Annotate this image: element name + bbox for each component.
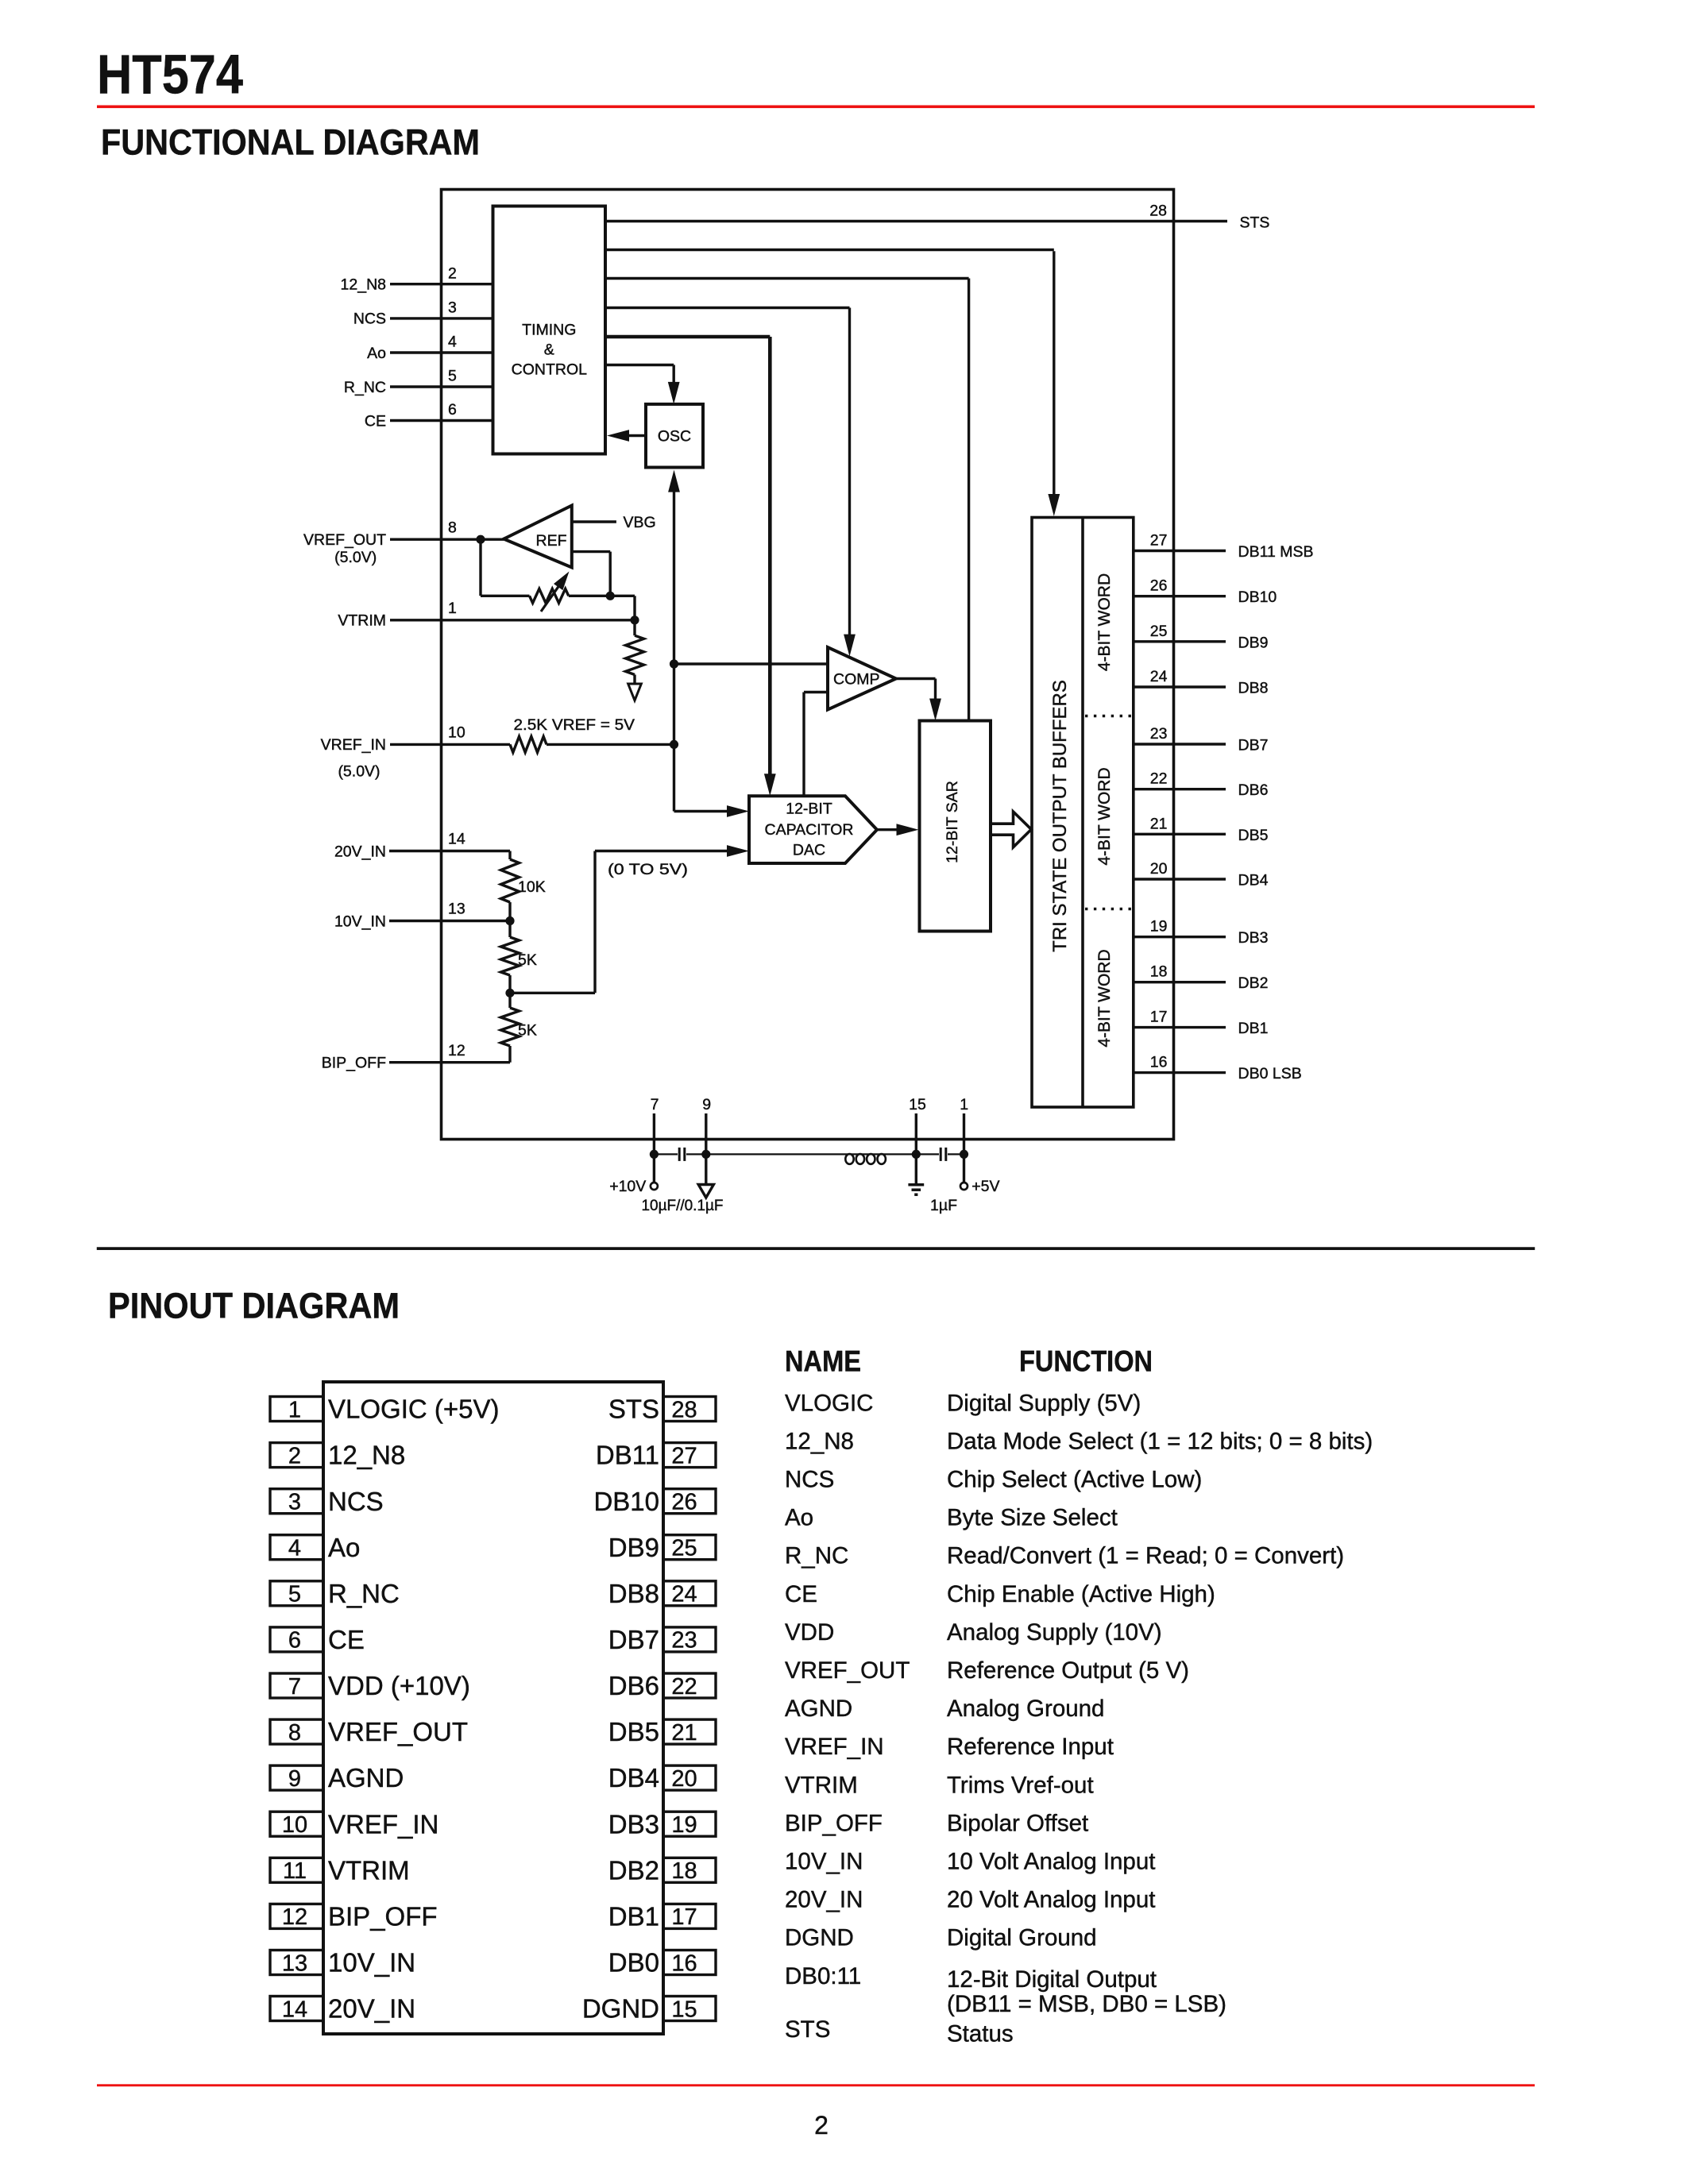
svg-text:15: 15 (909, 1096, 926, 1113)
trimmer resistor R_TRIM (530, 588, 569, 603)
svg-text:NCS: NCS (328, 1487, 384, 1516)
wire DB10 (pin 26) (1134, 595, 1226, 597)
svg-text:DAC: DAC (793, 841, 825, 859)
bus arrow SAR to TRI STATE OUTPUT BUFFERS (991, 812, 1031, 847)
arrowhead into COMP top (844, 635, 856, 657)
svg-text:2: 2 (814, 2111, 829, 2140)
svg-text:VLOGIC (+5V): VLOGIC (+5V) (328, 1395, 499, 1424)
svg-text:DB4: DB4 (608, 1763, 659, 1792)
svg-text:DB5: DB5 (608, 1717, 659, 1746)
svg-text:7: 7 (288, 1674, 301, 1700)
svg-text:12-BIT: 12-BIT (786, 801, 832, 818)
wire DB1 (pin 17) (1134, 1026, 1226, 1028)
svg-text:STS: STS (1240, 214, 1270, 231)
wire supply rail segment 4 (948, 1153, 964, 1155)
pin 9 stub (705, 1113, 707, 1154)
arrowhead into TIMING & CONTROL right edge (607, 430, 629, 442)
wire supply rail segment 2 (686, 1153, 844, 1155)
outer boundary box of functional diagram (442, 190, 1174, 1140)
resistor R1 below VTRIM node (633, 620, 635, 635)
svg-text:27: 27 (671, 1443, 697, 1468)
svg-text:TIMING: TIMING (522, 322, 576, 339)
chip pin box 5 (270, 1581, 323, 1606)
svg-text:3: 3 (448, 299, 457, 317)
terminal +5V circle (960, 1183, 968, 1190)
svg-text:24: 24 (1150, 668, 1168, 685)
svg-text:VTRIM: VTRIM (785, 1772, 858, 1798)
svg-text:DB1: DB1 (1238, 1020, 1269, 1037)
svg-text:4-BIT WORD: 4-BIT WORD (1095, 573, 1114, 671)
chip pin box 18 (663, 1858, 716, 1882)
svg-text:PINOUT DIAGRAM: PINOUT DIAGRAM (108, 1286, 400, 1326)
chip pin box 15 (663, 1997, 716, 2021)
junction COMP input branch (670, 659, 678, 668)
svg-text:DB8: DB8 (608, 1579, 659, 1608)
svg-text:BIP_OFF: BIP_OFF (785, 1810, 883, 1836)
terminal +10V circle (651, 1183, 658, 1190)
svg-text:12_N8: 12_N8 (341, 276, 386, 294)
svg-text:Chip Select (Active Low): Chip Select (Active Low) (947, 1467, 1202, 1493)
svg-text:Trims Vref-out: Trims Vref-out (947, 1772, 1094, 1798)
svg-text:DB9: DB9 (1238, 634, 1269, 651)
wire pin15 to digital ground (915, 1154, 917, 1184)
svg-text:R_NC: R_NC (785, 1543, 848, 1569)
wire feedback to VTRIM node (610, 595, 635, 597)
wire 10V_IN (pin 13) (389, 920, 510, 922)
svg-text:5K: 5K (518, 1022, 537, 1040)
chip pin box 9 (270, 1765, 323, 1790)
wire 20V_IN (pin 14) (389, 850, 510, 852)
svg-text:12-BIT SAR: 12-BIT SAR (944, 781, 961, 863)
svg-text:Reference Input: Reference Input (947, 1734, 1114, 1760)
svg-text:2: 2 (288, 1443, 301, 1468)
svg-text:Ao: Ao (785, 1505, 813, 1531)
svg-text:2: 2 (448, 264, 457, 282)
wire VREF node to DAC input 1 (674, 810, 732, 812)
svg-text:11: 11 (283, 1858, 307, 1884)
svg-text:CONTROL: CONTROL (512, 361, 587, 379)
wire STS (pin 28) from TIMING & CONTROL (605, 220, 1227, 222)
block 12-BIT SAR (920, 721, 991, 932)
svg-text:&: & (544, 341, 554, 359)
chip pin box 4 (270, 1535, 323, 1560)
wire TIMING & CONTROL to OSC (605, 364, 674, 366)
svg-text:STS: STS (608, 1395, 659, 1424)
junction 10V_IN node (505, 916, 514, 925)
svg-text:CE: CE (785, 1581, 817, 1607)
chip pin box 20 (663, 1765, 716, 1790)
svg-text:Reference Output (5 V): Reference Output (5 V) (947, 1657, 1189, 1684)
chip pin box 19 (663, 1812, 716, 1836)
svg-text:20: 20 (1150, 860, 1168, 878)
wire NCS (pin 3) to TIMING & CONTROL (390, 317, 493, 319)
svg-text:12: 12 (282, 1904, 307, 1930)
chip pin box 27 (663, 1443, 716, 1468)
chip pin box 21 (663, 1719, 716, 1744)
junction rail pin9 (701, 1150, 710, 1159)
svg-text:VDD: VDD (785, 1619, 834, 1646)
wire feedback from VREF_OUT node down (479, 539, 481, 596)
black section divider rule (97, 1248, 1535, 1250)
arrowhead into TRI STATE OUTPUT BUFFERS (1048, 494, 1060, 516)
svg-text:AGND: AGND (785, 1696, 852, 1722)
svg-text:12-Bit Digital Output: 12-Bit Digital Output (947, 1966, 1157, 1993)
svg-text:18: 18 (671, 1858, 697, 1884)
wire BIP_OFF (pin 12) (389, 1061, 510, 1063)
svg-text:1: 1 (960, 1096, 968, 1113)
chip pin box 1 (270, 1397, 323, 1422)
pin 7 stub (653, 1113, 655, 1154)
red header rule (97, 106, 1535, 109)
resistor R2 2.5K (510, 736, 547, 752)
ground digital (bar symbol) (908, 1183, 924, 1187)
wire VREF node vertical (673, 488, 675, 812)
svg-text:10V_IN: 10V_IN (328, 1948, 415, 1978)
svg-text:NCS: NCS (785, 1467, 834, 1493)
wire trimmer to REF output (569, 595, 610, 597)
svg-text:12: 12 (448, 1042, 465, 1059)
junction rail pin1 (960, 1150, 968, 1159)
wire VREF node to COMP input 1 (674, 662, 829, 665)
svg-text:6: 6 (288, 1628, 301, 1653)
divider dotted between 4-bit words upper (1085, 715, 1134, 717)
svg-text:DB5: DB5 (1238, 827, 1269, 844)
svg-text:DB3: DB3 (608, 1809, 659, 1839)
svg-text:VLOGIC: VLOGIC (785, 1390, 873, 1416)
svg-text:10 Volt Analog Input: 10 Volt Analog Input (947, 1849, 1155, 1875)
junction VREF_OUT feedback (476, 535, 485, 544)
svg-text:Data Mode Select (1 = 12 bits;: Data Mode Select (1 = 12 bits; 0 = 8 bit… (947, 1428, 1373, 1454)
svg-text:Byte Size Select: Byte Size Select (947, 1505, 1118, 1531)
svg-text:4-BIT WORD: 4-BIT WORD (1095, 767, 1114, 865)
svg-text:1µF: 1µF (930, 1197, 957, 1214)
wire DB0 (pin 16) (1134, 1071, 1226, 1074)
junction VREF_IN node (670, 740, 678, 749)
svg-text:(5.0V): (5.0V) (334, 549, 377, 566)
svg-text:19: 19 (1150, 918, 1168, 936)
chip pin box 28 (663, 1397, 716, 1422)
junction VTRIM (630, 615, 639, 624)
resistor R5 5K (508, 993, 511, 1008)
wire VREF_IN (pin 10) left segment (390, 743, 510, 746)
svg-text:DB1: DB1 (608, 1901, 659, 1931)
svg-text:20V_IN: 20V_IN (328, 1994, 415, 2024)
svg-text:5K: 5K (518, 951, 537, 969)
svg-text:4: 4 (448, 334, 457, 351)
svg-text:22: 22 (671, 1674, 697, 1700)
svg-text:(DB11 = MSB, DB0 = LSB): (DB11 = MSB, DB0 = LSB) (947, 1991, 1226, 2017)
svg-text:10V_IN: 10V_IN (334, 913, 386, 930)
svg-text:VREF_IN: VREF_IN (785, 1734, 884, 1760)
svg-text:13: 13 (448, 901, 465, 918)
svg-text:26: 26 (671, 1489, 697, 1515)
junction divider node (505, 989, 514, 997)
svg-text:Status: Status (947, 2021, 1014, 2047)
svg-text:20 Volt Analog Input: 20 Volt Analog Input (947, 1887, 1155, 1913)
svg-text:FUNCTION: FUNCTION (1019, 1345, 1153, 1377)
svg-text:DB10: DB10 (593, 1487, 659, 1516)
wire VTRIM (pin 1) (390, 619, 635, 621)
svg-text:+10V: +10V (609, 1178, 646, 1195)
block OSC U2 (646, 404, 703, 468)
svg-text:R_NC: R_NC (328, 1579, 400, 1608)
arrowhead into OSC bottom (668, 470, 680, 492)
wire TIMING & CONTROL to TRI STATE OUTPUT BUFFERS (605, 249, 1054, 251)
svg-text:20V_IN: 20V_IN (785, 1887, 863, 1913)
pin 1 stub (VLOGIC) (963, 1113, 965, 1154)
chip pin box 16 (663, 1951, 716, 1975)
svg-text:DB6: DB6 (1238, 781, 1269, 799)
svg-text:21: 21 (1150, 815, 1168, 832)
svg-text:Analog Ground: Analog Ground (947, 1696, 1104, 1722)
svg-text:DB3: DB3 (1238, 929, 1269, 947)
junction trimmer-REF output (606, 592, 615, 600)
divider dotted between 4-bit words lower (1085, 908, 1134, 910)
wire DAC output to COMP input 2 (802, 693, 805, 797)
svg-text:DB6: DB6 (608, 1671, 659, 1700)
arrowhead into DAC input 1 (727, 805, 749, 817)
svg-text:Analog Supply (10V): Analog Supply (10V) (947, 1619, 1162, 1646)
svg-text:DB2: DB2 (1238, 974, 1269, 992)
chip pin box 3 (270, 1489, 323, 1514)
svg-text:DB7: DB7 (1238, 737, 1269, 754)
svg-text:10µF//0.1µF: 10µF//0.1µF (642, 1197, 724, 1214)
open arrow reference symbol below R1 (628, 684, 642, 700)
inductor L1 (845, 1154, 853, 1164)
chip pin box 12 (270, 1904, 323, 1928)
wire DB3 (pin 19) (1134, 936, 1226, 938)
svg-text:20: 20 (671, 1766, 697, 1792)
block TRI STATE OUTPUT BUFFERS (1032, 518, 1134, 1108)
svg-text:R_NC: R_NC (344, 379, 386, 396)
wire supply rail segment 1 (654, 1153, 678, 1155)
capacitor C1 10uF//0.1uF (678, 1148, 681, 1161)
svg-text:BIP_OFF: BIP_OFF (322, 1055, 386, 1072)
wire DB9 (pin 25) (1134, 640, 1226, 642)
wire TIMING & CONTROL to 12-BIT SAR (605, 277, 969, 280)
junction rail pin15 (912, 1150, 921, 1159)
chip pin box 2 (270, 1443, 323, 1468)
svg-text:(0 TO 5V): (0 TO 5V) (608, 861, 688, 878)
svg-text:10K: 10K (518, 878, 546, 896)
svg-text:OSC: OSC (658, 428, 691, 446)
svg-text:12_N8: 12_N8 (328, 1441, 405, 1470)
svg-text:6: 6 (448, 401, 457, 419)
wire DAC output to SAR input (877, 828, 900, 831)
chip pin box 17 (663, 1904, 716, 1928)
wire OSC output to TIMING & CONTROL (628, 434, 646, 437)
comparator COMP U4 (828, 647, 896, 710)
svg-text:DB0 LSB: DB0 LSB (1238, 1065, 1302, 1082)
svg-text:CE: CE (328, 1625, 365, 1654)
svg-text:16: 16 (1150, 1054, 1168, 1071)
resistor R3 10K (508, 851, 511, 860)
svg-text:VTRIM: VTRIM (328, 1855, 410, 1885)
svg-text:10: 10 (282, 1812, 307, 1838)
arrowhead into DAC input 2 (727, 845, 749, 857)
arrowhead into SAR top (929, 699, 941, 721)
svg-text:22: 22 (1150, 770, 1168, 788)
trimmer arrow (541, 584, 561, 612)
svg-text:Digital Ground: Digital Ground (947, 1925, 1097, 1951)
svg-text:HT574: HT574 (97, 44, 243, 106)
svg-text:Bipolar Offset: Bipolar Offset (947, 1810, 1088, 1836)
arrowhead into OSC top (668, 382, 680, 404)
svg-text:Digital Supply (5V): Digital Supply (5V) (947, 1390, 1141, 1416)
svg-text:17: 17 (671, 1904, 697, 1930)
svg-text:DB0: DB0 (608, 1948, 659, 1978)
chip pin box 23 (663, 1627, 716, 1652)
svg-text:27: 27 (1150, 532, 1168, 550)
net VBG stub (572, 520, 616, 523)
chip body HT574 (323, 1382, 663, 2034)
svg-text:(5.0V): (5.0V) (338, 763, 380, 781)
svg-text:FUNCTIONAL DIAGRAM: FUNCTIONAL DIAGRAM (101, 122, 480, 163)
svg-text:7: 7 (651, 1096, 659, 1113)
chip pin box 26 (663, 1489, 716, 1514)
wire DB5 (pin 21) (1134, 833, 1226, 835)
wire R_NC (pin 5) to TIMING & CONTROL (390, 385, 493, 388)
svg-text:REF: REF (536, 532, 567, 550)
svg-text:5: 5 (288, 1582, 301, 1607)
chip pin box 8 (270, 1719, 323, 1744)
svg-text:1: 1 (288, 1397, 301, 1422)
resistor R4 5K (508, 921, 511, 938)
wire DB8 (pin 24) (1134, 685, 1226, 688)
svg-text:NAME: NAME (785, 1345, 861, 1377)
arrowhead into DAC top (764, 774, 776, 796)
svg-text:1: 1 (448, 600, 457, 617)
svg-text:DB10: DB10 (1238, 588, 1277, 606)
svg-text:TRI STATE OUTPUT BUFFERS: TRI STATE OUTPUT BUFFERS (1049, 680, 1071, 952)
svg-text:COMP: COMP (833, 671, 880, 689)
wire pin1 to +5V terminal (963, 1154, 965, 1182)
wire Ao (pin 4) to TIMING & CONTROL (390, 351, 493, 353)
svg-text:DB11: DB11 (596, 1441, 659, 1470)
svg-text:AGND: AGND (328, 1763, 404, 1792)
svg-text:15: 15 (671, 1997, 697, 2022)
svg-text:10: 10 (448, 724, 465, 742)
svg-text:5: 5 (448, 368, 457, 385)
wire 12_N8 (pin 2) to TIMING & CONTROL (390, 283, 493, 285)
wire VREF_OUT (pin 8) to REF (390, 538, 504, 541)
block TIMING & CONTROL (493, 206, 606, 454)
svg-text:9: 9 (288, 1766, 301, 1792)
capacitor C2 1uF (940, 1148, 942, 1161)
wire pin9 to analog ground (705, 1154, 707, 1184)
wire 0-to-5V node to DAC input 2 (510, 992, 595, 994)
svg-text:DB4: DB4 (1238, 872, 1269, 889)
svg-text:25: 25 (1150, 623, 1168, 640)
chip pin box 7 (270, 1673, 323, 1698)
chip pin box 14 (270, 1997, 323, 2021)
svg-text:DB11 MSB: DB11 MSB (1238, 543, 1314, 561)
svg-text:Ao: Ao (328, 1533, 360, 1562)
wire DB2 (pin 18) (1134, 981, 1226, 983)
op-amp REF U3 (504, 506, 572, 568)
chip pin box 24 (663, 1581, 716, 1606)
svg-text:3: 3 (288, 1489, 301, 1515)
chip pin box 22 (663, 1673, 716, 1698)
svg-text:BIP_OFF: BIP_OFF (328, 1901, 438, 1931)
svg-text:CE: CE (365, 412, 386, 430)
svg-text:21: 21 (671, 1720, 697, 1746)
svg-text:28: 28 (1149, 202, 1167, 219)
chip pin box 25 (663, 1535, 716, 1560)
svg-text:14: 14 (282, 1997, 307, 2022)
chip pin box 11 (270, 1858, 323, 1882)
svg-text:DB8: DB8 (1238, 680, 1269, 697)
red footer rule (97, 2084, 1535, 2086)
svg-text:DB0:11: DB0:11 (785, 1963, 861, 1989)
svg-text:24: 24 (671, 1582, 697, 1607)
wire COMP output to 12-BIT SAR (896, 677, 936, 680)
chip pin box 6 (270, 1627, 323, 1652)
svg-text:VREF_OUT: VREF_OUT (785, 1657, 910, 1684)
svg-text:VREF_OUT: VREF_OUT (303, 531, 386, 549)
svg-text:18: 18 (1150, 963, 1168, 981)
svg-text:8: 8 (448, 519, 457, 536)
chip pin box 10 (270, 1812, 323, 1836)
wire TIMING & CONTROL to COMP (605, 307, 850, 309)
svg-text:13: 13 (282, 1951, 307, 1976)
wire CE (pin 6) to TIMING & CONTROL (390, 419, 493, 422)
pin 15 stub (915, 1113, 917, 1154)
svg-text:20V_IN: 20V_IN (334, 843, 386, 860)
svg-text:9: 9 (702, 1096, 711, 1113)
wire DB7 (pin 23) (1134, 743, 1226, 745)
wire pin7 to +10V terminal (653, 1154, 655, 1182)
svg-text:4: 4 (288, 1536, 301, 1561)
svg-text:19: 19 (671, 1812, 697, 1838)
svg-text:8: 8 (288, 1720, 301, 1746)
svg-text:DGND: DGND (785, 1925, 854, 1951)
svg-text:VDD (+10V): VDD (+10V) (328, 1671, 470, 1700)
svg-text:Ao: Ao (367, 345, 386, 362)
chip pin box 13 (270, 1951, 323, 1975)
svg-text:DGND: DGND (582, 1994, 659, 2024)
svg-text:VBG: VBG (624, 514, 656, 531)
svg-text:VREF_IN: VREF_IN (321, 736, 386, 754)
svg-text:VREF_IN: VREF_IN (328, 1809, 438, 1839)
svg-text:25: 25 (671, 1536, 697, 1561)
ground analog (open arrow) (698, 1185, 713, 1198)
svg-text:12_N8: 12_N8 (785, 1428, 854, 1454)
svg-text:+5V: +5V (971, 1178, 999, 1195)
svg-text:28: 28 (671, 1397, 697, 1422)
svg-text:26: 26 (1150, 577, 1168, 595)
svg-text:16: 16 (671, 1951, 697, 1976)
wire supply rail segment 3 (887, 1153, 939, 1155)
svg-text:STS: STS (785, 2016, 830, 2043)
svg-text:17: 17 (1150, 1009, 1168, 1026)
junction rail pin7 (650, 1150, 659, 1159)
svg-text:14: 14 (448, 831, 465, 848)
wire TIMING & CONTROL to 12-BIT CAPACITOR DAC (605, 335, 770, 339)
svg-text:VTRIM: VTRIM (338, 612, 386, 630)
wire 2.5K to VREF node (547, 743, 674, 746)
svg-text:23: 23 (671, 1628, 697, 1653)
svg-text:2.5K VREF = 5V: 2.5K VREF = 5V (514, 716, 635, 734)
svg-text:DB2: DB2 (608, 1855, 659, 1885)
svg-text:CAPACITOR: CAPACITOR (765, 821, 854, 839)
svg-text:Read/Convert (1 = Read; 0 = Co: Read/Convert (1 = Read; 0 = Convert) (947, 1543, 1344, 1569)
svg-text:Chip Enable (Active High): Chip Enable (Active High) (947, 1581, 1215, 1607)
svg-text:VREF_OUT: VREF_OUT (328, 1717, 468, 1746)
svg-text:10V_IN: 10V_IN (785, 1849, 863, 1875)
block 12-BIT CAPACITOR DAC (749, 796, 877, 863)
svg-text:4-BIT WORD: 4-BIT WORD (1095, 949, 1114, 1047)
